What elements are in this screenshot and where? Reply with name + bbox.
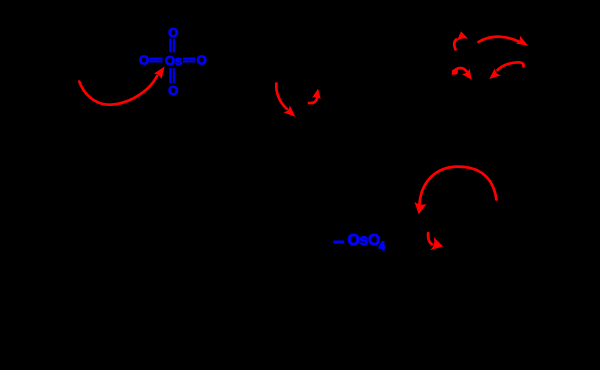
svg-text:Os: Os <box>165 53 182 68</box>
svg-text:4: 4 <box>379 241 386 253</box>
svg-text:OsO: OsO <box>348 232 381 249</box>
svg-text:O: O <box>168 83 178 98</box>
svg-text:O: O <box>197 53 207 68</box>
svg-text:O: O <box>139 53 149 68</box>
svg-text:O: O <box>168 25 178 40</box>
